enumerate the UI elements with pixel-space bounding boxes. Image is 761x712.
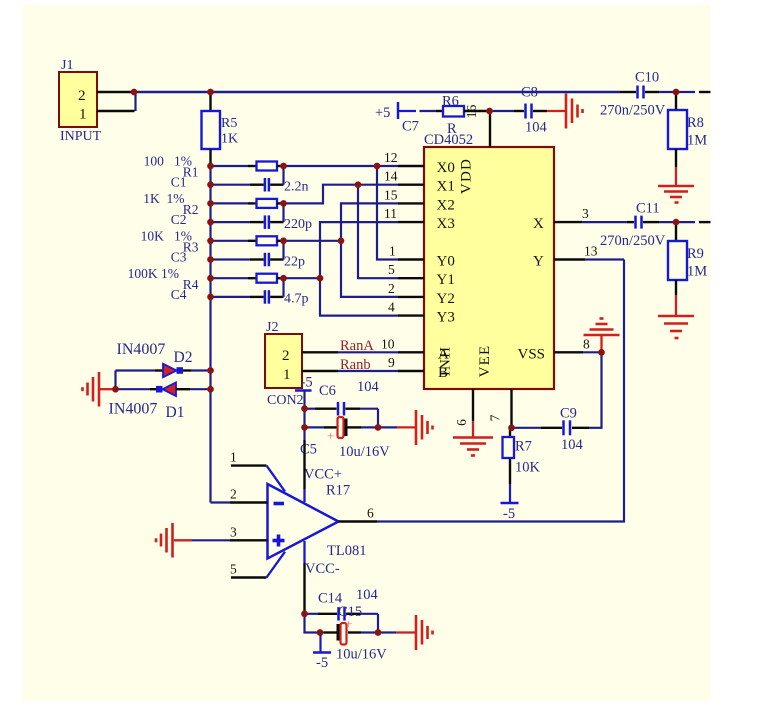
svg-text:9: 9 — [388, 355, 395, 370]
svg-text:270n/250V: 270n/250V — [600, 233, 666, 249]
svg-text:RanA: RanA — [340, 338, 374, 354]
capacitor C3 — [171, 241, 305, 269]
wire diodes to ground — [100, 388, 116, 390]
svg-text:1: 1 — [283, 367, 291, 383]
svg-text:D2: D2 — [174, 349, 193, 366]
pin 11 X3 — [384, 206, 455, 232]
svg-text:C6: C6 — [319, 383, 336, 399]
svg-text:-5: -5 — [316, 655, 328, 671]
ground (earth left-facing) at diodes — [83, 372, 100, 407]
svg-text:5: 5 — [230, 562, 237, 577]
svg-text:12: 12 — [384, 150, 398, 165]
svg-text:1M: 1M — [687, 264, 707, 280]
resistor R6 — [436, 94, 489, 138]
svg-text:C5: C5 — [300, 442, 317, 458]
capacitor C9 — [512, 406, 590, 454]
svg-text:VCC+: VCC+ — [304, 467, 342, 483]
svg-text:D1: D1 — [166, 404, 185, 421]
svg-text:VEE: VEE — [477, 345, 493, 378]
op-amp output pin 6 — [339, 506, 378, 522]
wire R3 node to X2 — [284, 203, 399, 240]
svg-text:1K: 1K — [221, 132, 238, 147]
svg-text:16: 16 — [464, 105, 479, 119]
svg-text:IN4007: IN4007 — [117, 341, 166, 358]
op-amp VCC+ pin — [303, 440, 305, 489]
svg-text:1: 1 — [389, 244, 396, 259]
svg-text:VDD: VDD — [459, 158, 475, 194]
output wire to Y vertical — [377, 260, 624, 522]
svg-text:R17: R17 — [326, 483, 350, 499]
junction node X1/Y1 — [355, 182, 361, 188]
pin 14 X1 — [384, 169, 455, 195]
pin 15 X2 — [384, 187, 455, 213]
op-amp pin 1 — [230, 450, 285, 492]
svg-text:10u/16V: 10u/16V — [336, 647, 387, 663]
wire R2 node to X1 — [284, 185, 399, 204]
svg-text:CON2: CON2 — [267, 393, 304, 408]
wire down to Y0 — [377, 166, 398, 260]
svg-text:C15: C15 — [338, 604, 362, 620]
junction VSS — [598, 349, 604, 355]
ground (earth up-facing) above VSS — [584, 319, 620, 353]
svg-text:VSS: VSS — [518, 346, 546, 362]
pin 13 Y out — [533, 244, 598, 270]
diode D2 IN4007 — [116, 341, 211, 377]
wire VSS node down to C9 — [589, 352, 602, 428]
svg-text:C1: C1 — [171, 175, 187, 190]
ground (earth left-facing) at pin 3 — [156, 523, 173, 558]
wire down to Y1 — [358, 185, 398, 279]
capacitor C1 — [171, 166, 309, 195]
junction C11/R9 — [673, 219, 679, 225]
top bus wire — [134, 91, 620, 94]
ground under R9 — [658, 295, 694, 338]
capacitor C4 — [171, 278, 309, 307]
resistor R4 — [128, 266, 287, 292]
capacitor C15 electrolytic — [324, 604, 387, 663]
capacitor C8 — [490, 85, 548, 136]
svg-text:Y0: Y0 — [437, 254, 455, 270]
wire VCC- down to C15 row — [305, 614, 325, 633]
svg-text:C11: C11 — [636, 201, 660, 217]
capacitor C14 — [305, 587, 379, 621]
svg-text:Y2: Y2 — [437, 291, 455, 307]
resistor R5 — [209, 92, 211, 111]
svg-text:IN4007: IN4007 — [109, 401, 158, 418]
svg-text:-5: -5 — [301, 375, 313, 391]
svg-text:C9: C9 — [560, 406, 577, 422]
svg-text:2: 2 — [282, 348, 290, 364]
junction dots overlay — [112, 89, 679, 636]
wire Ranb: J2 pin1 to IC pin9 — [302, 370, 398, 372]
junction C6 — [301, 406, 307, 412]
svg-text:4: 4 — [388, 300, 395, 315]
connector J1 — [59, 72, 97, 127]
wire pin3 X to C11 — [582, 221, 627, 223]
svg-text:1: 1 — [79, 107, 87, 123]
resistor R9 — [668, 222, 707, 295]
svg-text:J2: J2 — [266, 320, 278, 335]
capacitor C11 — [600, 201, 676, 250]
wire C15 to ground — [378, 631, 396, 633]
diode D1 IN4007 — [109, 382, 211, 421]
minus input mark — [274, 502, 285, 506]
junction bus/R5 — [207, 89, 213, 95]
ground under IC pin 6 — [453, 421, 493, 456]
svg-text:C3: C3 — [171, 250, 187, 265]
-5 power port at J2 — [295, 375, 313, 409]
svg-text:C10: C10 — [635, 70, 659, 86]
svg-text:10: 10 — [381, 336, 395, 351]
wire down to Y3 — [320, 278, 398, 315]
connector J2 — [265, 334, 302, 388]
svg-text:1K 1%: 1K 1% — [143, 191, 184, 206]
pin 16 VDD top — [489, 111, 491, 147]
svg-text:6: 6 — [454, 419, 469, 426]
junction node X2/Y2 — [338, 238, 344, 244]
svg-text:3: 3 — [582, 206, 589, 221]
junction C10/R8 — [673, 89, 679, 95]
resistor R2 — [143, 191, 286, 217]
-5 power port under C15 — [313, 633, 331, 672]
svg-text:TL081: TL081 — [327, 543, 366, 559]
svg-text:2: 2 — [230, 487, 237, 502]
ground (earth, right-facing) at C8 — [566, 94, 583, 129]
svg-text:Ranb: Ranb — [340, 357, 371, 373]
junction node X3/Y3 — [317, 275, 323, 281]
wire VSS to ground node — [583, 351, 602, 353]
svg-text:R: R — [447, 121, 457, 137]
pin 4 Y3 — [388, 300, 455, 326]
junction pin16 node — [486, 108, 492, 114]
capacitor C10 in top bus — [600, 70, 676, 119]
+5 power port — [375, 102, 416, 121]
svg-text:Y1: Y1 — [437, 272, 455, 288]
wire off-sheet right — [676, 221, 695, 223]
J1 pin 2 — [97, 91, 134, 93]
svg-text:4.7p: 4.7p — [284, 292, 309, 307]
svg-text:X1: X1 — [437, 179, 455, 195]
svg-text:15: 15 — [384, 187, 398, 202]
resistor R8 — [668, 92, 707, 167]
svg-text:R8: R8 — [687, 115, 704, 131]
wire off-sheet top right — [676, 91, 695, 93]
svg-text:C7: C7 — [402, 119, 419, 135]
resistor R1 — [144, 154, 287, 180]
wire J1 pin1 to bus — [134, 92, 136, 111]
svg-text:+: + — [327, 428, 334, 443]
svg-text:104: 104 — [356, 587, 379, 603]
op-amp U2 TL081 triangle — [268, 484, 339, 559]
svg-text:270n/250V: 270n/250V — [600, 103, 666, 119]
svg-text:6: 6 — [367, 506, 374, 521]
svg-text:R6: R6 — [442, 94, 459, 110]
pin 5 Y1 — [388, 262, 455, 288]
wire C6 down to C5 node — [377, 409, 379, 428]
junction C5 — [301, 424, 307, 430]
wire RanA: J2 pin2 to IC pin10 — [302, 351, 398, 353]
svg-text:22p: 22p — [284, 254, 305, 269]
resistor R3 — [141, 228, 287, 254]
resistor R7 — [503, 428, 541, 502]
wire pin3 to ground — [174, 539, 192, 541]
junction D2 bus — [207, 367, 213, 373]
-5 power port under R7 — [501, 503, 519, 522]
junction VCC- / C14 — [301, 611, 307, 617]
op-amp pin 5 — [230, 552, 285, 578]
junction at J1 — [131, 89, 137, 95]
svg-text:10u/16V: 10u/16V — [339, 444, 390, 460]
IC U1 CD4052 body — [424, 147, 554, 389]
svg-text:2: 2 — [78, 88, 86, 104]
svg-text:1: 1 — [230, 450, 237, 465]
svg-text:2: 2 — [388, 281, 395, 296]
op-amp VCC- pin — [303, 541, 305, 563]
J1 pin 1 — [97, 110, 135, 112]
junction pin7/R7 — [508, 425, 514, 431]
capacitor C5 electrolytic — [300, 417, 390, 460]
svg-text:Y: Y — [533, 254, 544, 270]
junction D1 bus — [207, 386, 213, 392]
svg-text:3: 3 — [230, 524, 237, 539]
svg-text:-5: -5 — [503, 506, 515, 522]
svg-text:104: 104 — [561, 437, 584, 453]
svg-text:J1: J1 — [61, 58, 73, 73]
svg-text:+5: +5 — [375, 105, 390, 121]
vertical wire -5 rail — [303, 409, 305, 440]
svg-text:C4: C4 — [171, 287, 187, 302]
svg-text:1M: 1M — [687, 133, 707, 149]
wire R1 node to X0 — [284, 165, 399, 167]
svg-text:Y3: Y3 — [437, 310, 455, 326]
wire +5 to R6 — [420, 110, 437, 112]
svg-text:R7: R7 — [515, 439, 532, 455]
junction C5/C6 right — [375, 424, 381, 430]
pin 12 X0 — [384, 150, 455, 176]
svg-text:R5: R5 — [221, 116, 237, 131]
ground under R8 — [658, 167, 694, 203]
ground (earth right-facing) at C15 — [416, 615, 433, 650]
svg-text:C2: C2 — [171, 212, 187, 227]
svg-text:X: X — [533, 216, 544, 232]
svg-text:C8: C8 — [521, 85, 538, 101]
svg-text:220p: 220p — [284, 217, 312, 232]
op-amp pin 2 wire from bus — [211, 487, 268, 503]
pin 2 Y2 — [388, 281, 455, 307]
op-amp pin 3 — [192, 524, 268, 540]
svg-text:100K 1%: 100K 1% — [128, 266, 179, 281]
svg-text:10K: 10K — [515, 460, 541, 476]
wire down to Y2 — [341, 241, 398, 297]
plus input mark — [273, 535, 285, 547]
svg-text:8: 8 — [583, 336, 590, 351]
pin 9 B — [388, 355, 448, 381]
svg-text:13: 13 — [584, 244, 598, 259]
capacitor C2 — [171, 203, 312, 232]
pin 1 Y0 — [389, 244, 455, 270]
pin 7 VEE bottom — [488, 389, 512, 428]
junction node X0/Y0 — [374, 163, 380, 169]
wire C5 to ground — [378, 426, 397, 428]
ground (earth right-facing) at C5 — [416, 410, 433, 445]
capacitor C6 — [305, 379, 380, 416]
svg-text:VCC-: VCC- — [305, 561, 340, 577]
pin 6 INH bottom — [454, 389, 473, 426]
svg-text:104: 104 — [357, 379, 380, 395]
svg-text:INPUT: INPUT — [60, 129, 102, 144]
junction diodes left — [112, 386, 118, 392]
wire C14 down to C15 node — [377, 614, 379, 633]
svg-text:X2: X2 — [437, 197, 455, 213]
junction -5 tap — [317, 629, 323, 635]
svg-text:2.2n: 2.2n — [284, 180, 309, 195]
junction C14/C15 right — [375, 629, 381, 635]
pin 3 X out — [533, 206, 589, 232]
left vertical bus — [209, 166, 211, 503]
svg-text:14: 14 — [384, 169, 398, 184]
wire C8 to ground — [547, 110, 565, 112]
wire Y pin13 to vertical — [585, 258, 624, 260]
pin 8 VSS — [518, 336, 591, 362]
pin 10 A — [381, 336, 449, 362]
wire D1 node up to D2 — [114, 371, 116, 390]
svg-text:11: 11 — [384, 206, 397, 221]
svg-text:7: 7 — [488, 414, 503, 421]
wire R4 node to X3 — [284, 222, 399, 278]
svg-text:INH: INH — [438, 346, 454, 376]
svg-text:104: 104 — [525, 120, 548, 136]
svg-text:5: 5 — [388, 262, 395, 277]
svg-text:R9: R9 — [687, 246, 704, 262]
svg-text:X3: X3 — [437, 216, 455, 232]
svg-text:X0: X0 — [437, 160, 455, 176]
